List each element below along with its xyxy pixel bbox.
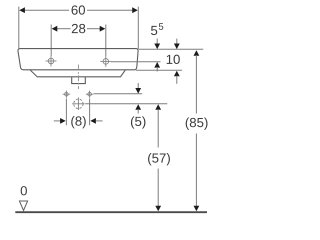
leader from right crosshair <box>111 61 160 63</box>
tap hole crosshair left <box>46 56 57 67</box>
drain outlet crosshair <box>72 98 85 111</box>
up arrow of 5 dim <box>135 104 141 113</box>
datum level triangle <box>19 201 27 211</box>
fixing hole crosshair left <box>63 91 70 98</box>
dimension line 57 lower part <box>155 169 161 212</box>
extension line left of 60 dim <box>18 7 20 49</box>
down arrow of 5.5 dim <box>154 39 160 50</box>
extension line right of 60 dim <box>137 7 139 49</box>
dimension 8 right tail and arrowhead <box>90 118 102 124</box>
dimension line 57 upper arrow <box>155 104 161 147</box>
dimension line 60 <box>25 9 133 11</box>
extension line below left fixing hole <box>65 99 67 126</box>
label (8) <box>71 116 85 128</box>
extension line left of 28 dim <box>50 25 52 56</box>
label (5) <box>131 116 145 128</box>
arrowhead right of 28 <box>100 26 106 32</box>
basin outline <box>18 49 138 70</box>
fixing hole crosshair right <box>86 91 93 98</box>
extension line right of 28 dim <box>105 25 107 57</box>
dimension line 85 upper arrow <box>194 50 200 113</box>
leader from right fixing hole <box>94 93 143 95</box>
label (85) <box>186 118 208 130</box>
arrowhead left of 28 <box>52 26 58 32</box>
label 0 datum <box>21 186 27 195</box>
dimension line 85 lower part <box>194 134 200 212</box>
drain fitting <box>72 77 86 83</box>
basin bowl underside <box>30 70 125 77</box>
centerline of drain <box>77 65 79 90</box>
up arrow of 10 dim <box>174 71 180 84</box>
leader from drain outlet <box>85 103 167 105</box>
arrowhead left of 60 <box>19 7 25 13</box>
tap hole crosshair right <box>100 56 111 67</box>
up arrow of 5.5 dim <box>154 62 160 72</box>
down arrow of 5 dim <box>135 83 141 94</box>
label 28 <box>72 24 85 33</box>
label 60 <box>72 5 85 14</box>
apron bottom extension line right <box>136 69 182 71</box>
dimension line 28 <box>57 28 101 30</box>
extension line below right fixing hole <box>89 99 91 126</box>
dimension 8 left tail and arrowhead <box>54 118 66 124</box>
label 5.5 <box>151 23 163 35</box>
label (57) <box>148 153 170 165</box>
label 10 <box>167 55 180 64</box>
arrowhead right of 60 <box>132 7 138 13</box>
floor line <box>15 211 207 213</box>
rim extension line right <box>139 48 204 50</box>
down arrow of 10 dim <box>174 39 180 50</box>
